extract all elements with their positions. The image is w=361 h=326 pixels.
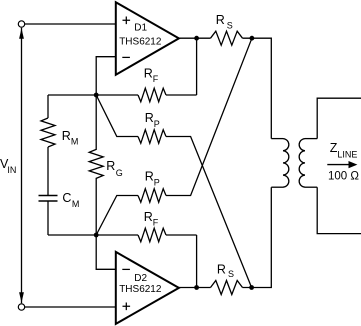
wire RP bottom to cross diagonal: [166, 38, 252, 195]
svg-text:R: R: [144, 210, 153, 224]
svg-text:R: R: [106, 159, 115, 173]
wire RG top lead: [95, 95, 97, 150]
junction D1 output: [194, 36, 199, 41]
svg-text:100 Ω: 100 Ω: [328, 171, 359, 183]
VIN up arrowhead: [19, 28, 24, 39]
node VIN+ input terminal: [18, 21, 24, 27]
junction D2 output: [194, 285, 199, 290]
svg-text:F: F: [153, 74, 159, 84]
svg-text:R: R: [144, 67, 153, 81]
VIN down arrowhead: [19, 292, 24, 303]
wire secondary bottom stub: [317, 187, 361, 233]
svg-text:D1: D1: [134, 23, 147, 34]
wire D2 inverting input to node B: [96, 235, 116, 269]
wire D1 output: [179, 37, 211, 39]
wire RM branch top: [47, 95, 49, 118]
wire node A horizontal rail: [48, 94, 197, 96]
svg-text:M: M: [72, 199, 80, 209]
svg-text:P: P: [154, 119, 160, 129]
wire RS top to transformer: [243, 38, 272, 138]
op-amp D1 THS6212: [116, 2, 179, 75]
svg-text:P: P: [154, 177, 160, 187]
node VIN- input terminal: [18, 304, 24, 310]
wire D2 output: [179, 287, 211, 289]
wire RS bottom to transformer: [243, 187, 272, 287]
resistor RF top: [138, 88, 166, 102]
wire RM to CM: [47, 147, 49, 196]
svg-text:R: R: [216, 13, 225, 27]
wire RF top to D1 output: [196, 38, 198, 95]
transformer primary winding: [271, 139, 289, 188]
resistor RP top: [138, 130, 166, 144]
svg-text:D2: D2: [134, 273, 147, 284]
resistor RF bottom: [138, 228, 166, 242]
junction RS top right: [250, 36, 255, 41]
resistor RS top: [211, 31, 243, 45]
wire RG bottom lead: [95, 178, 97, 235]
resistor RS bottom: [211, 281, 243, 295]
svg-text:R: R: [217, 263, 226, 277]
capacitor CM: [39, 196, 58, 202]
svg-text:F: F: [153, 217, 159, 227]
wire node B diagonal to RP bottom: [96, 196, 138, 236]
transformer secondary winding: [299, 139, 317, 188]
wire VIN source line: [21, 28, 23, 303]
junction RS bottom right: [249, 285, 254, 290]
ZLINE direction arrow: [327, 164, 351, 166]
svg-text:R: R: [145, 170, 154, 184]
wire bottom input to D2 noninverting: [25, 306, 116, 308]
node B junction: [94, 233, 99, 238]
wire D1 inverting input to node A: [96, 57, 116, 95]
svg-text:C: C: [62, 191, 71, 205]
svg-text:R: R: [145, 111, 154, 125]
wire secondary top stub: [317, 98, 361, 138]
wire top input to D1 noninverting: [25, 23, 116, 25]
resistor RM: [41, 118, 55, 147]
svg-text:THS6212: THS6212: [119, 36, 162, 47]
wire node A diagonal to RP top: [96, 95, 138, 137]
svg-text:LINE: LINE: [337, 149, 357, 159]
svg-text:S: S: [228, 269, 234, 279]
svg-text:THS6212: THS6212: [119, 284, 162, 295]
node A junction: [94, 93, 99, 98]
wire RF bottom to D2 output: [196, 235, 198, 288]
svg-text:R: R: [62, 129, 71, 143]
wire RP top to cross diagonal: [166, 137, 252, 288]
svg-text:G: G: [116, 168, 123, 178]
svg-text:M: M: [71, 137, 79, 147]
svg-text:S: S: [227, 21, 233, 31]
op-amp D2 THS6212: [116, 252, 179, 324]
wire node B horizontal rail: [48, 234, 197, 236]
resistor RG: [89, 149, 103, 178]
svg-text:IN: IN: [7, 165, 16, 175]
wire CM bottom: [47, 201, 49, 235]
resistor RP bottom: [138, 189, 166, 203]
